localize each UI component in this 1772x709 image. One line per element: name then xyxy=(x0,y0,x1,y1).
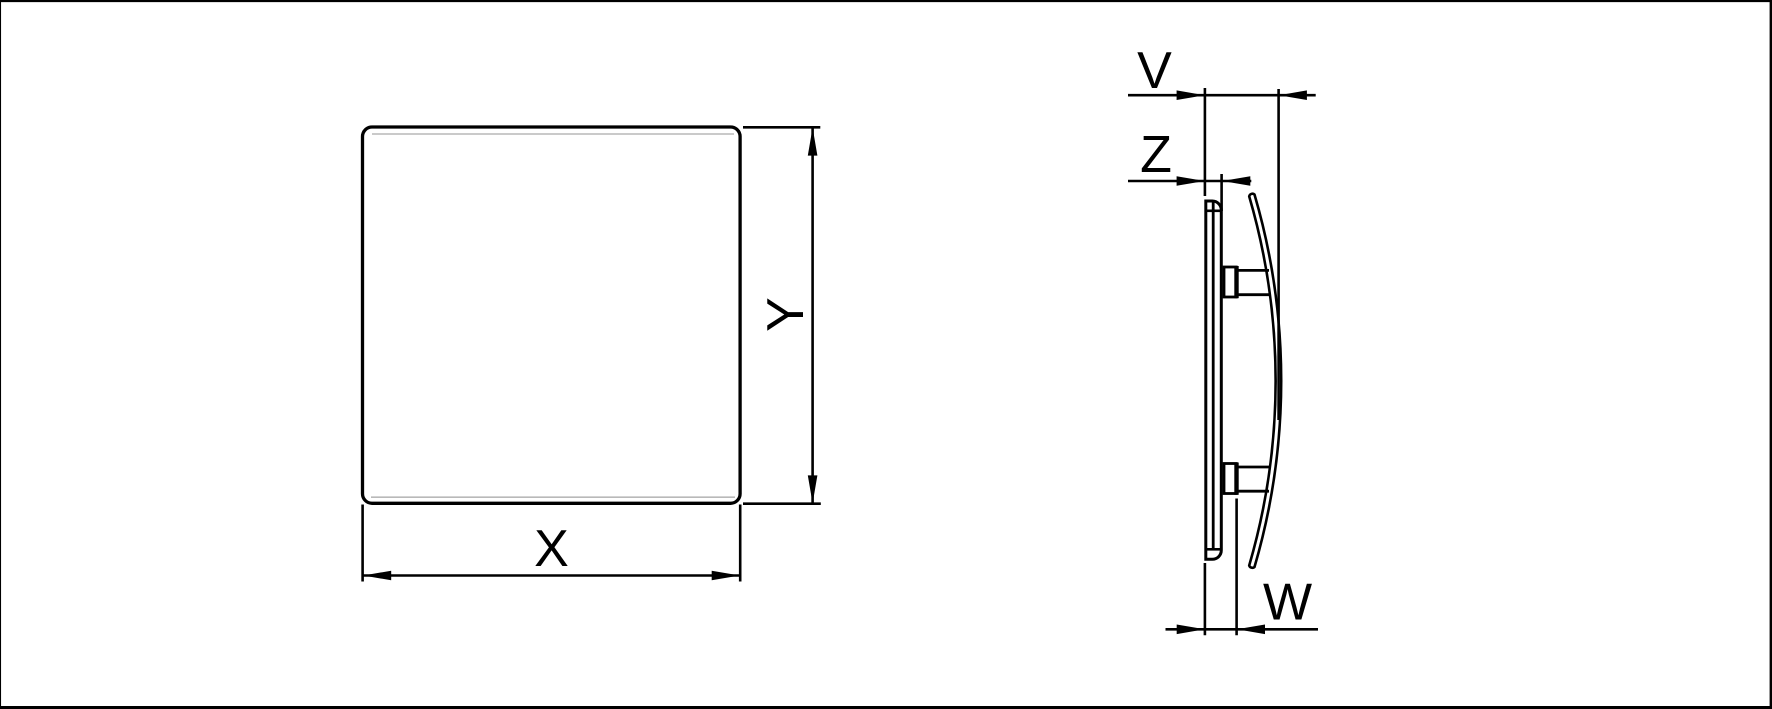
Y extension line bottom xyxy=(743,502,821,505)
V extension line (left, shared with Z) xyxy=(1204,88,1207,196)
W label xyxy=(1263,574,1312,632)
V extension line right xyxy=(1277,89,1280,420)
svg-text:V: V xyxy=(1137,42,1172,100)
Y label xyxy=(757,297,815,332)
svg-text:W: W xyxy=(1263,574,1312,632)
svg-text:X: X xyxy=(534,520,569,578)
Z extension line right xyxy=(1220,174,1223,211)
back plate inner edge line xyxy=(1212,202,1215,550)
back plate bottom tangent line xyxy=(1206,548,1222,551)
front panel bottom edge highlight xyxy=(371,496,735,498)
Z dimension line with arrows xyxy=(1128,176,1251,186)
svg-text:Z: Z xyxy=(1140,126,1172,184)
front panel (front view) xyxy=(363,127,741,503)
X label xyxy=(534,520,569,578)
Z label xyxy=(1140,126,1172,184)
Y extension line top xyxy=(743,126,820,129)
bottom mounting clip xyxy=(1224,463,1270,495)
X extension line left xyxy=(361,505,364,582)
svg-text:Y: Y xyxy=(757,297,815,332)
W extension line right xyxy=(1235,499,1238,636)
V dimension line with arrows xyxy=(1128,90,1316,100)
W extension line left xyxy=(1204,563,1207,635)
X dimension line with arrows xyxy=(363,571,740,581)
W dimension line with arrows xyxy=(1166,625,1319,635)
Y dimension line with arrows xyxy=(808,128,818,504)
top mounting clip xyxy=(1224,266,1270,298)
V label xyxy=(1137,42,1172,100)
front cover (side view) xyxy=(1249,194,1281,568)
X extension line right xyxy=(739,505,742,582)
front panel top edge highlight xyxy=(372,133,734,135)
back plate top tangent line xyxy=(1206,210,1222,213)
back plate (side view) xyxy=(1206,201,1222,559)
